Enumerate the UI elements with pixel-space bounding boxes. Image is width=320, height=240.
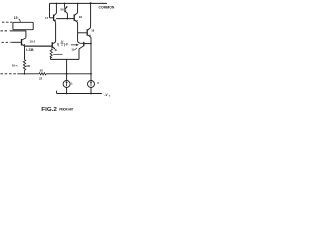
- junction dot rail-Q50: [64, 3, 66, 5]
- transistor Q5 (label 10-1): [22, 38, 26, 46]
- svg-text:2R: 2R: [26, 64, 31, 68]
- transistor Q3 (label 16): [74, 3, 78, 22]
- wire RE bottom corner: [49, 58, 51, 60]
- junction dot supply-I2: [90, 93, 92, 95]
- svg-text:COMMON: COMMON: [99, 4, 115, 9]
- wire Q3 emitter down to Q4: [78, 23, 84, 44]
- wire Q1 emitter down to Q2 collector: [53, 22, 56, 43]
- wire bit line 3 solid base lead Q5: [11, 41, 21, 43]
- svg-text:50: 50: [60, 7, 64, 11]
- svg-text:22: 22: [39, 76, 43, 80]
- svg-text:16·∞: 16·∞: [12, 64, 18, 68]
- svg-text:20: 20: [40, 69, 44, 73]
- wire I2 to supply: [90, 88, 92, 94]
- box 15 input register: [13, 22, 33, 29]
- transistor Q50 diode-connected: [65, 3, 68, 18]
- junction dot rail-Q1 collector: [56, 3, 58, 5]
- junction dot ladder-I2: [90, 73, 92, 75]
- resistor 2R vertical: [23, 60, 25, 74]
- wire rail left drop to Q1 base: [49, 3, 51, 17]
- wire R-2R ladder bottom dashed: [0, 73, 16, 75]
- svg-text:16: 16: [79, 15, 83, 19]
- wire I1 to supply: [66, 87, 68, 93]
- wire dashed bit line 1: [2, 21, 12, 23]
- transistor Q6 (label 18): [78, 3, 91, 37]
- svg-text:18: 18: [91, 29, 94, 33]
- svg-text:I(: I(: [57, 43, 60, 47]
- transistor Q4: [79, 42, 91, 60]
- svg-text:s: s: [109, 96, 111, 98]
- wire LSB node down to 2R resistor: [24, 46, 26, 60]
- junction dot mid-rail node: [67, 18, 69, 20]
- transistor Q2 LSB switch: [25, 42, 55, 49]
- svg-text:v: v: [61, 44, 63, 47]
- svg-text:2: 2: [97, 81, 99, 85]
- svg-text:FIG.2: FIG.2: [41, 107, 57, 113]
- transistor Q1 (label 17): [50, 3, 57, 22]
- wire bit line 2 solid into Q5 collector: [10, 31, 26, 38]
- svg-text:1: 1: [71, 82, 73, 86]
- current source I1: [63, 81, 70, 88]
- wire negative supply line: [57, 91, 102, 94]
- svg-text:10-1: 10-1: [30, 39, 36, 43]
- junction dot rail-Q6 collector: [90, 2, 92, 4]
- wire summing node down to current source I1: [66, 59, 68, 80]
- wire dashed bit line 3: [2, 41, 11, 43]
- wire LSB line Q5 emitter to Q2 base: [25, 45, 52, 47]
- resistor RE vertical below Q2: [50, 49, 52, 58]
- junction dot supply-I1: [66, 93, 68, 95]
- svg-text:PRIOR ART: PRIOR ART: [59, 107, 74, 111]
- wire dashed bit line 2: [1, 30, 9, 32]
- svg-text:Ib: Ib: [55, 48, 58, 52]
- leader line near Ib: [53, 53, 62, 55]
- current source I2: [88, 81, 95, 88]
- svg-text:)·I²: )·I²: [64, 43, 68, 47]
- junction dot rail-Q3 collector: [77, 3, 78, 4]
- junction dot Q4 emitter to Q6 emitter line: [90, 43, 92, 45]
- wire Q6 emitter down through ladder to current source I2: [90, 37, 92, 80]
- wire equation arrow to Q4 base: [71, 44, 78, 45]
- svg-text:17: 17: [45, 16, 49, 20]
- resistor 20 horizontal: [39, 73, 46, 75]
- svg-text:15: 15: [14, 16, 18, 20]
- junction dot 2R-ladder: [24, 73, 26, 75]
- wire R-2R ladder bottom solid: [17, 73, 91, 75]
- junction dot ladder-I1: [66, 73, 68, 75]
- svg-text:1b: 1b: [71, 47, 75, 51]
- wire COMMON top rail: [50, 2, 108, 4]
- svg-text:LSB: LSB: [26, 48, 34, 52]
- wire mid horizontal Q1emitter-to-Q3base: [56, 18, 74, 20]
- wire summing node horizontal: [50, 58, 79, 60]
